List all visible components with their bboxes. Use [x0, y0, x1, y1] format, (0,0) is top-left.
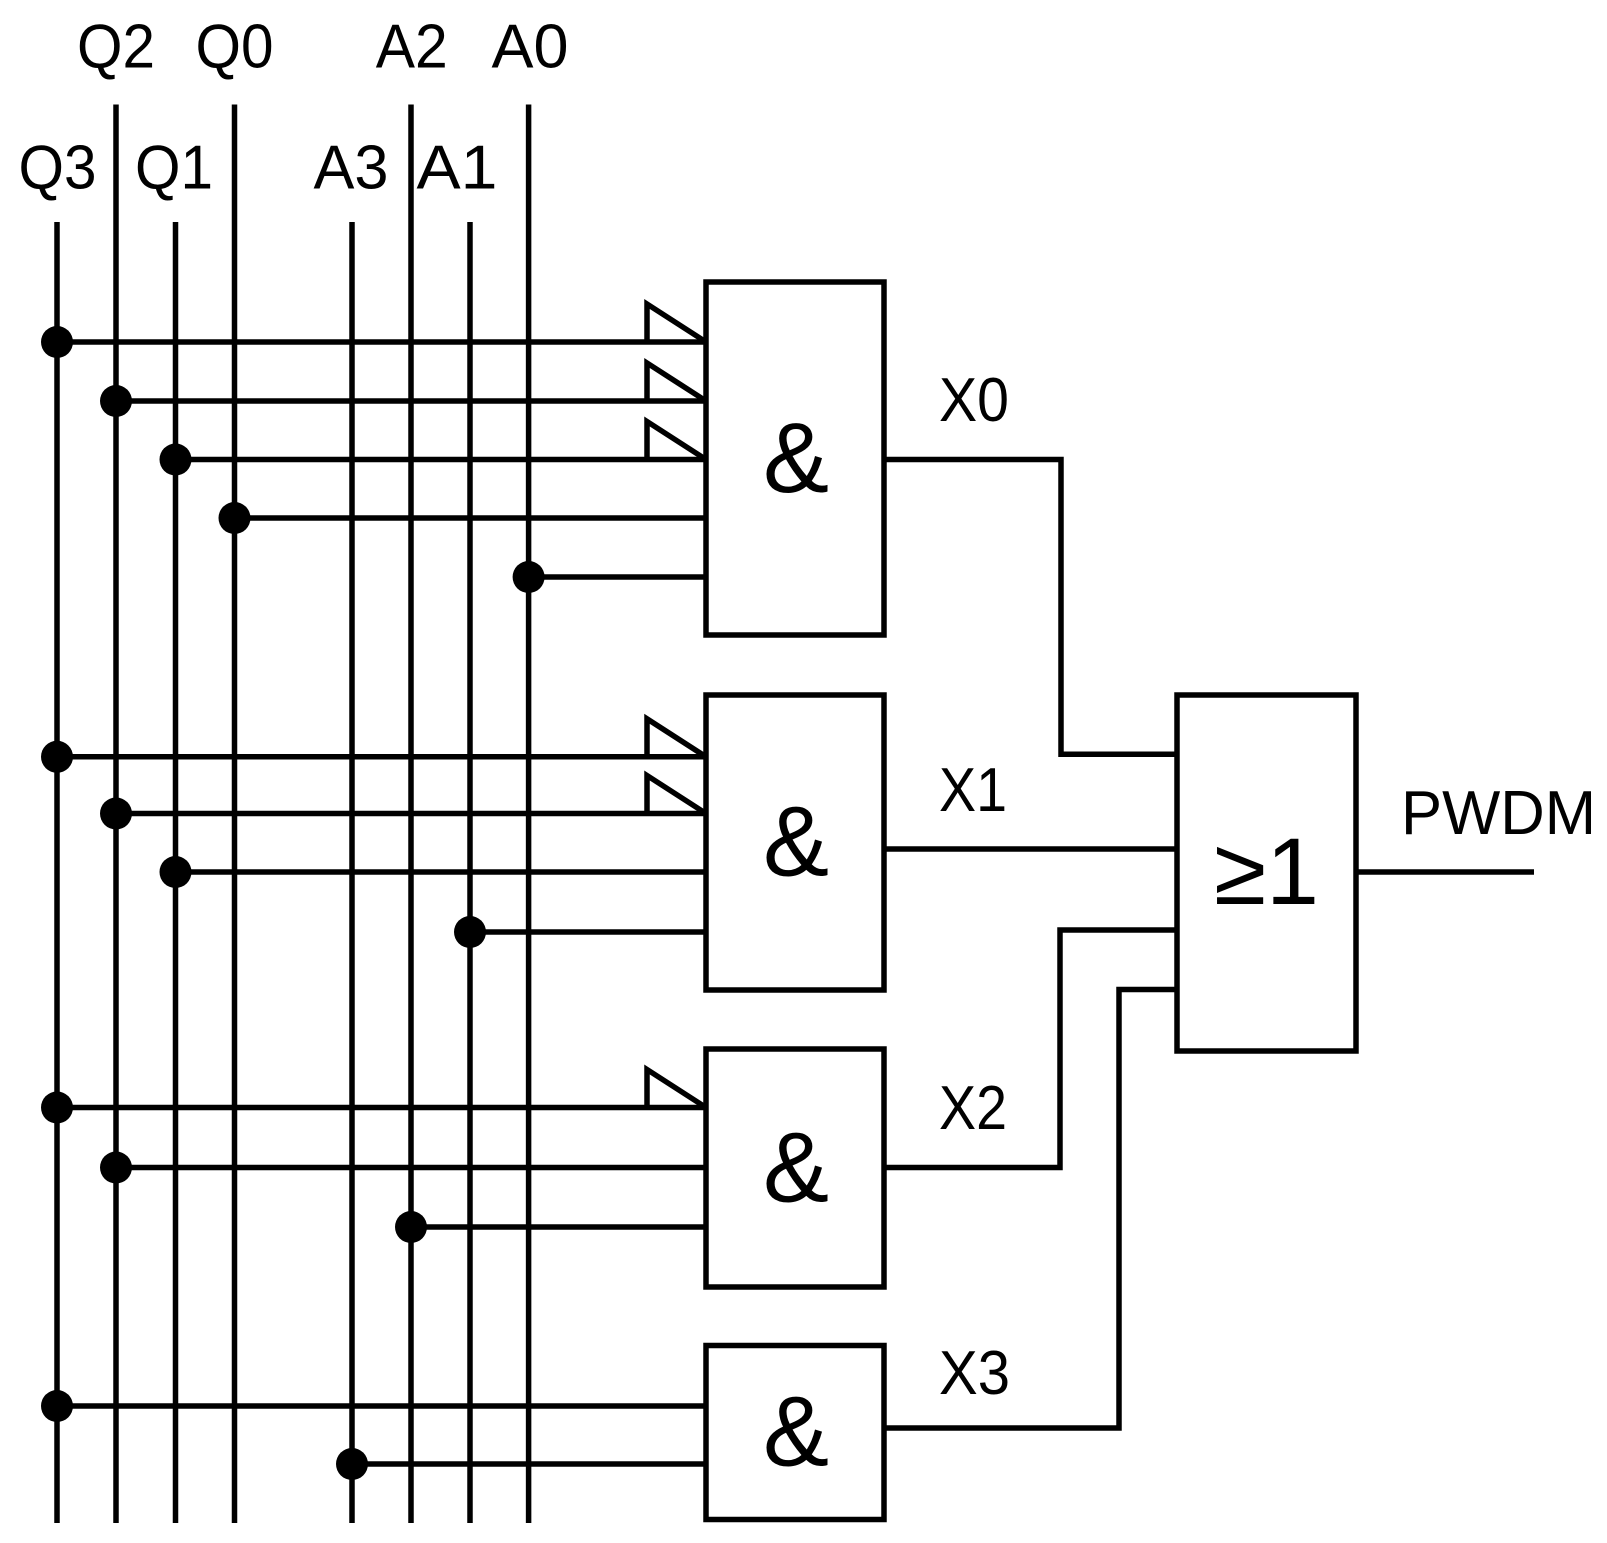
wire Q1 to AND2 input 3 — [176, 869, 707, 875]
wire PWDM output — [1356, 869, 1534, 875]
inverted-input indicator AND3 input 1 — [647, 1070, 706, 1108]
wire Q1 to AND1 input 3 — [176, 457, 707, 463]
inverted-input indicator AND1 input 3 — [647, 422, 706, 460]
and-gate U2 box — [706, 695, 884, 990]
and-gate U4 box — [706, 1346, 884, 1520]
net Q2 vertical bus line — [113, 105, 119, 1524]
svg-text:Q1: Q1 — [135, 134, 213, 203]
net A0 vertical bus line — [526, 105, 532, 1524]
svg-text:A1: A1 — [417, 134, 498, 203]
wire X0 net: AND1 output to OR input 1 — [884, 460, 1177, 755]
wire Q2 to AND2 input 2 — [116, 811, 706, 817]
junction dot A0/AND1 — [513, 561, 545, 593]
net A3 vertical bus line — [349, 222, 355, 1523]
svg-text:PWDM: PWDM — [1401, 779, 1596, 848]
svg-text:Q0: Q0 — [196, 13, 274, 82]
svg-text:Q2: Q2 — [77, 13, 155, 82]
svg-text:X0: X0 — [939, 366, 1009, 435]
junction dot Q0/AND1 — [219, 502, 251, 534]
svg-text:A0: A0 — [492, 13, 569, 82]
wire A1 to AND2 input 4 — [470, 929, 706, 935]
wire Q3 to AND2 input 1 — [57, 754, 706, 760]
junction dot Q2/AND1 — [100, 385, 132, 417]
wire Q0 to AND1 input 4 — [235, 515, 707, 521]
and-gate U3 box — [706, 1049, 884, 1287]
net Q0 vertical bus line — [232, 105, 238, 1524]
net A1 vertical bus line — [467, 222, 473, 1523]
net A2 vertical bus line — [408, 105, 414, 1524]
svg-text:&: & — [763, 1112, 829, 1223]
wire Q2 to AND1 input 2 — [116, 398, 706, 404]
junction dot A1/AND2 — [454, 916, 486, 948]
junction dot Q3/AND4 — [41, 1390, 73, 1422]
junction dot A2/AND3 — [395, 1211, 427, 1243]
inverted-input indicator AND2 input 2 — [647, 776, 706, 814]
svg-text:&: & — [763, 402, 829, 513]
svg-text:X3: X3 — [939, 1339, 1010, 1408]
and-gate U1 box — [706, 282, 884, 635]
wire X2 net: AND3 output to OR input 3 — [884, 930, 1177, 1168]
svg-text:&: & — [763, 786, 829, 897]
junction dot Q3/AND2 — [41, 741, 73, 773]
svg-text:≥1: ≥1 — [1214, 819, 1319, 925]
junction dot A3/AND4 — [336, 1448, 368, 1480]
junction dot Q2/AND2 — [100, 798, 132, 830]
wire X3 net: AND4 output to OR input 4 — [884, 990, 1177, 1429]
junction dot Q1/AND1 — [160, 444, 192, 476]
inverted-input indicator AND1 input 2 — [647, 363, 706, 401]
wire X1 net: AND2 output to OR input 2 — [884, 846, 1177, 852]
net Q3 vertical bus line — [54, 222, 60, 1523]
or-gate U5 box — [1177, 695, 1356, 1051]
junction dot Q1/AND2 — [160, 856, 192, 888]
junction dot Q3/AND1 — [41, 326, 73, 358]
wire Q3 to AND3 input 1 — [57, 1105, 706, 1111]
wire Q3 to AND4 input 1 — [57, 1403, 706, 1409]
svg-text:Q3: Q3 — [19, 134, 97, 203]
wire A2 to AND3 input 3 — [411, 1224, 706, 1230]
svg-text:X1: X1 — [939, 756, 1007, 825]
wire Q3 to AND1 input 1 — [57, 339, 706, 345]
svg-text:A3: A3 — [314, 134, 389, 203]
svg-text:A2: A2 — [376, 13, 448, 82]
svg-text:X2: X2 — [939, 1074, 1007, 1143]
wire A3 to AND4 input 2 — [352, 1461, 706, 1467]
wire Q2 to AND3 input 2 — [116, 1165, 706, 1171]
net Q1 vertical bus line — [173, 222, 179, 1523]
svg-text:&: & — [763, 1376, 829, 1487]
junction dot Q3/AND3 — [41, 1092, 73, 1124]
wire A0 to AND1 input 5 — [529, 574, 706, 580]
inverted-input indicator AND1 input 1 — [647, 304, 706, 342]
inverted-input indicator AND2 input 1 — [647, 719, 706, 757]
junction dot Q2/AND3 — [100, 1152, 132, 1184]
